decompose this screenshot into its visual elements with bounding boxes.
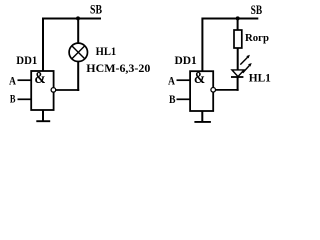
wire: gate bottom pin [201,111,203,122]
wire: rail down to gate top pin [42,18,44,72]
svg-text:DD1: DD1 [16,55,37,67]
svg-text:SB: SB [251,3,263,17]
gate DD1 body [31,71,53,110]
ground [36,120,50,122]
wire: dot down to resistor [237,19,239,31]
svg-text:A: A [168,75,176,87]
wire: top power rail to SB [42,18,101,20]
input A wire [18,79,32,81]
wire: gate output horizontal [216,89,239,91]
svg-text:B: B [10,94,16,106]
LED emission arrow 1 [240,55,250,65]
LED cathode bar [231,76,243,78]
LED HL1 diode triangle [232,70,244,77]
lamp HL1 [69,43,87,61]
wire: lamp down to output wire [77,61,79,91]
LED emission arrow 2 [243,63,252,73]
svg-text:HL1: HL1 [96,46,117,58]
resistor Rogr body [234,30,242,48]
inverter bubble [51,88,56,93]
input B wire [18,98,32,100]
wire: top power rail to SB [202,18,259,20]
svg-text:HCM-6,3-20: HCM-6,3-20 [86,61,150,75]
wire: rail down to gate top pin [201,18,203,72]
ground [194,121,211,123]
svg-text:&: & [34,68,45,87]
input B wire [177,98,191,100]
node junction dot [76,16,80,20]
svg-text:B: B [169,94,176,106]
gate DD1 body [190,71,213,111]
wire: dot down to lamp [77,19,79,45]
svg-text:SB: SB [90,3,102,17]
svg-text:HL1: HL1 [249,72,271,84]
node junction dot [236,16,240,20]
wire: LED down to output wire [237,77,239,91]
inverter bubble [211,88,216,93]
svg-text:DD1: DD1 [175,55,198,67]
input A wire [177,79,191,81]
svg-text:&: & [194,68,205,87]
wire: resistor down to LED [237,48,239,70]
svg-text:A: A [9,75,17,87]
svg-text:Rогр: Rогр [245,32,269,44]
wire: gate bottom pin [42,110,44,122]
wire: gate output horizontal [56,89,79,91]
